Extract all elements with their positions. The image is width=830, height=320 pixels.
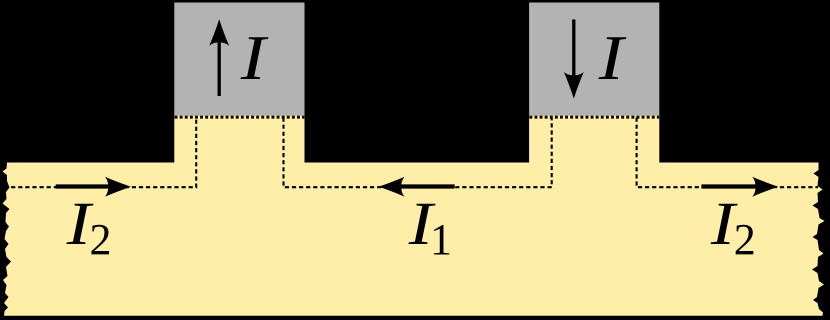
arrow I down (in right electrode) [564, 19, 584, 98]
right electrode (gray block) [529, 3, 659, 116]
svg-text:1: 1 [430, 215, 452, 264]
svg-text:2: 2 [734, 215, 756, 264]
dotted interface line under right electrode [529, 116, 659, 119]
arrow I2 right (rightward) [701, 177, 778, 197]
left electrode (gray block) [174, 3, 304, 116]
svg-text:2: 2 [90, 215, 112, 264]
arrow I1 (leftward) [379, 177, 455, 197]
dashed current path left (I2) [4, 118, 196, 188]
conductor slab (yellow) with torn left/right edges and two mesas [3, 115, 825, 316]
dotted interface line under left electrode [175, 116, 305, 119]
svg-text:I: I [598, 22, 627, 93]
dashed current path middle (I1) [284, 118, 552, 188]
arrow I2 left (rightward) [56, 177, 131, 197]
arrow I up (in left electrode) [209, 19, 229, 96]
dashed current path right (I2) [637, 118, 818, 188]
svg-text:I: I [240, 22, 269, 93]
